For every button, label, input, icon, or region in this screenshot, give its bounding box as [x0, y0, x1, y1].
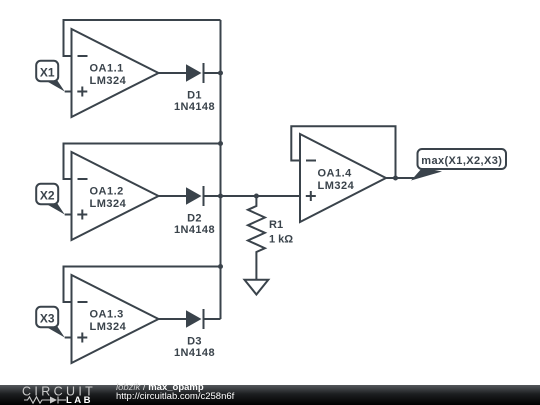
svg-text:1 kΩ: 1 kΩ	[269, 234, 293, 246]
junction: OA1.4 output node	[393, 176, 398, 181]
wire: OA1.1 output to D1	[159, 72, 187, 74]
svg-text:X1: X1	[40, 66, 55, 80]
wire: OA1.4 output	[386, 177, 414, 179]
junction: R1 tap	[254, 194, 259, 199]
svg-text:LM324: LM324	[90, 75, 127, 87]
svg-text:OA1.1: OA1.1	[90, 63, 124, 75]
wire: OA1.3 feedback loop	[64, 267, 221, 303]
diode D2	[174, 186, 220, 236]
wire: OA1.3 non-inverting input stub	[65, 337, 72, 339]
svg-text:1N4148: 1N4148	[174, 101, 215, 113]
op-amp OA1.3	[72, 275, 159, 363]
svg-text:D2: D2	[187, 213, 202, 225]
junction: D1 cathode on bus	[218, 71, 223, 76]
wire: OA1.1 non-inverting input stub	[65, 91, 72, 93]
node X3 flag	[36, 307, 64, 338]
wire: OA1.2 output to D2	[159, 195, 187, 197]
svg-text:OA1.4: OA1.4	[318, 168, 353, 180]
wire: OA1.1 feedback loop	[64, 20, 221, 56]
svg-text:X2: X2	[40, 189, 55, 203]
diode D3	[174, 309, 220, 359]
svg-text:D1: D1	[187, 90, 202, 102]
wire: output bus vertical	[220, 20, 222, 319]
junction: D2 cathode on bus	[218, 194, 223, 199]
wire: OA1.2 feedback loop	[64, 144, 221, 180]
node X2 flag	[36, 184, 64, 215]
junction: OA1.2 feedback on bus	[218, 141, 223, 146]
svg-text:1N4148: 1N4148	[174, 347, 215, 359]
svg-text:R1: R1	[269, 219, 283, 231]
svg-text:LM324: LM324	[90, 321, 127, 333]
svg-text:max(X1,X2,X3): max(X1,X2,X3)	[421, 155, 502, 167]
diode D1	[174, 63, 220, 113]
svg-text:X3: X3	[40, 312, 55, 326]
node max(X1,X2,X3) flag	[411, 149, 506, 181]
footer bar	[0, 385, 540, 405]
ground	[245, 280, 269, 295]
svg-text:OA1.2: OA1.2	[90, 186, 124, 198]
svg-text:LAB: LAB	[66, 395, 93, 405]
CircuitLab logo	[18, 384, 118, 405]
resistor R1	[248, 196, 293, 280]
wire: OA1.3 output to D3	[159, 318, 187, 320]
node X1 flag	[36, 61, 64, 92]
wire: OA1.4 feedback loop	[291, 126, 395, 178]
junction: OA1.3 feedback on bus	[218, 264, 223, 269]
wire: common node to OA1.4 input	[221, 195, 301, 197]
svg-text:D3: D3	[187, 336, 202, 348]
wire: OA1.2 non-inverting input stub	[65, 214, 72, 216]
op-amp OA1.2	[72, 152, 159, 240]
svg-text:OA1.3: OA1.3	[90, 309, 124, 321]
op-amp OA1.4	[300, 134, 386, 222]
svg-text:1N4148: 1N4148	[174, 224, 215, 236]
svg-text:LM324: LM324	[318, 180, 355, 192]
svg-text:LM324: LM324	[90, 198, 127, 210]
op-amp OA1.1	[72, 29, 159, 117]
